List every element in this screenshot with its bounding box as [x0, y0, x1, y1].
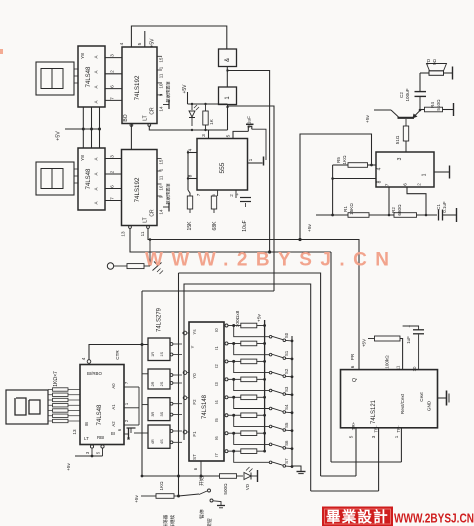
svg-text:14: 14 — [159, 209, 164, 214]
wire G1 output right — [226, 69, 269, 252]
bus wire y291 — [142, 290, 274, 292]
input row resistor/switch S4 — [225, 395, 293, 414]
svg-text:VD: VD — [245, 484, 250, 490]
svg-text:74LS279: 74LS279 — [157, 307, 163, 332]
svg-text:A1: A1 — [111, 404, 116, 410]
latch U8-4 — [148, 425, 182, 448]
capacitor 10uF — [236, 192, 251, 232]
decoder U1 74LS48 — [78, 46, 105, 107]
svg-text:1: 1 — [394, 435, 399, 438]
+5V label Q1 — [365, 114, 371, 122]
resistor 100k — [368, 336, 400, 369]
svg-text:4S: 4S — [160, 439, 164, 444]
U4 right pin numbers — [159, 159, 164, 214]
svg-text:13: 13 — [72, 429, 77, 435]
svg-text:A: A — [94, 70, 99, 73]
wire U6 pin6 — [407, 187, 427, 216]
svg-text:9Ω: 9Ω — [432, 58, 437, 65]
left bus vertical — [141, 291, 144, 477]
input row resistor/switch S7 — [225, 449, 293, 468]
svg-text:4R: 4R — [151, 439, 155, 444]
switch common rail — [291, 336, 293, 466]
wire Q to 74LS121 — [148, 240, 359, 371]
svg-text:4: 4 — [81, 357, 86, 360]
svg-text:100uF: 100uF — [405, 88, 410, 101]
capacitor C1 0.1uF — [436, 201, 447, 220]
wire G2 tap right — [228, 106, 275, 291]
pin 3 label — [201, 134, 207, 137]
wire Q to amp input — [298, 134, 373, 241]
svg-text:11: 11 — [159, 175, 164, 180]
svg-text:Ys: Ys — [192, 329, 197, 335]
pin 4 label — [188, 148, 194, 151]
ground pin6 U7 — [117, 428, 129, 439]
svg-text:7: 7 — [110, 197, 116, 200]
U7 bottom pins — [75, 445, 104, 458]
svg-text:TR+: TR+ — [351, 421, 356, 430]
junction dots +5V bus — [82, 128, 101, 131]
bus wire y273 — [179, 273, 321, 476]
svg-text:A2: A2 — [111, 421, 116, 427]
input row resistor/switch S6 — [225, 431, 293, 450]
svg-text:S7: S7 — [284, 458, 289, 464]
svg-text:数据预置端: 数据预置端 — [165, 184, 172, 205]
resistor R2 680 — [391, 204, 417, 217]
pickup terminal — [107, 263, 127, 269]
svg-text:CR: CR — [150, 209, 156, 217]
wire 555 pin3 up — [208, 130, 210, 139]
label zanting — [199, 509, 206, 519]
capacitor 1uF — [403, 324, 424, 344]
svg-text:+5v: +5v — [66, 463, 71, 471]
svg-text:11: 11 — [140, 231, 145, 236]
counter U3 74LS192 — [122, 47, 157, 124]
svg-text:CR: CR — [150, 107, 156, 115]
ground latch4 input — [127, 428, 149, 441]
junction clock-gate — [268, 250, 271, 253]
+5v label start — [134, 495, 139, 503]
wire C1 ground — [443, 208, 457, 222]
svg-text:1S: 1S — [160, 351, 164, 356]
banner url text — [394, 511, 474, 526]
svg-text:11: 11 — [159, 73, 164, 78]
svg-text:100Ωx8: 100Ωx8 — [235, 310, 241, 327]
pin 6 label — [211, 194, 216, 197]
svg-text:1: 1 — [422, 173, 428, 176]
svg-text:74LS192: 74LS192 — [134, 75, 141, 100]
svg-text:C1: C1 — [436, 204, 441, 210]
wire +5V rail amp — [316, 214, 348, 216]
svg-text:Q: Q — [352, 378, 358, 382]
wire cap to pin10 — [412, 335, 419, 372]
switch feed vertical — [177, 273, 180, 498]
svg-text:Y: Y — [190, 345, 195, 348]
amplifier U6 — [376, 152, 434, 187]
wires DS2 to U2 — [74, 169, 78, 183]
svg-text:2: 2 — [417, 183, 422, 186]
svg-text:+5v: +5v — [365, 114, 371, 122]
svg-text:74LS48: 74LS48 — [97, 404, 103, 425]
svg-text:H: H — [127, 436, 130, 441]
svg-text:2R: 2R — [151, 381, 155, 386]
svg-text:7: 7 — [385, 183, 390, 186]
svg-text:5: 5 — [137, 42, 143, 45]
svg-text:+5V: +5V — [362, 338, 367, 347]
7-segment display DS2 — [36, 162, 74, 195]
pin 8 label — [188, 174, 194, 177]
watermark left speck — [0, 49, 3, 54]
svg-text:10: 10 — [159, 83, 164, 88]
svg-text:A: A — [94, 172, 99, 175]
svg-text:揿钮: 揿钮 — [206, 518, 213, 526]
wire 555 left rail — [187, 151, 190, 197]
U4 right pin stubs — [157, 159, 162, 197]
svg-text:工作继续: 工作继续 — [169, 514, 176, 526]
decoder U7 74LS48 — [80, 365, 124, 445]
svg-text:100kΩ: 100kΩ — [385, 355, 390, 369]
wire U3 pin4 to gate — [131, 26, 226, 49]
svg-text:YD: YD — [426, 58, 431, 65]
svg-text:500Ω: 500Ω — [223, 483, 228, 495]
svg-text:CTR: CTR — [115, 350, 120, 360]
pin 7 label — [196, 193, 201, 196]
svg-text:+5v: +5v — [134, 495, 139, 503]
pin 2 label — [229, 194, 234, 197]
svg-text:S5: S5 — [284, 422, 289, 428]
label kaishi — [198, 476, 205, 486]
wires DS1 to U1 — [74, 69, 78, 83]
svg-text:2: 2 — [110, 70, 116, 73]
+5V label amp — [307, 223, 313, 231]
wire 555 pin2 — [235, 190, 237, 198]
wires U1 bottom to +5V bus — [83, 107, 99, 148]
wire U3 BO to U4 — [130, 124, 133, 150]
svg-text:6: 6 — [110, 185, 116, 188]
wire U6 pin7 — [388, 187, 391, 216]
banner red block — [322, 507, 393, 526]
svg-text:1KΩ: 1KΩ — [159, 481, 164, 491]
encoder input links — [182, 331, 189, 434]
svg-text:555: 555 — [219, 162, 226, 173]
svg-text:A: A — [94, 100, 99, 103]
svg-text:WWW.2BYSJ.CN: WWW.2BYSJ.CN — [145, 250, 389, 271]
resistor 51R — [395, 126, 409, 152]
svg-text:BO: BO — [123, 114, 129, 121]
svg-text:11: 11 — [396, 365, 401, 370]
label anniu — [206, 518, 213, 526]
svg-text:6: 6 — [110, 85, 116, 88]
svg-text:15: 15 — [159, 159, 164, 164]
pin 5 label — [226, 134, 232, 137]
pin 13 label U4 — [121, 231, 126, 237]
svg-text:3S: 3S — [160, 411, 164, 416]
svg-text:Y8: Y8 — [80, 155, 86, 161]
+5V label bus — [56, 129, 100, 141]
latch input wires — [142, 345, 148, 405]
svg-text:3: 3 — [110, 54, 116, 57]
svg-text:74LS121: 74LS121 — [371, 399, 377, 424]
svg-text:+5V: +5V — [150, 38, 156, 48]
svg-text:TR-: TR- — [374, 425, 379, 433]
svg-text:3: 3 — [110, 155, 116, 158]
+5V feed LED — [182, 84, 228, 104]
resistor 1K start — [141, 481, 179, 498]
svg-text:1uF: 1uF — [406, 336, 411, 344]
pin 5 label U3 — [137, 42, 143, 45]
svg-text:畢業設計: 畢業設計 — [326, 508, 389, 526]
svg-text:暂停: 暂停 — [199, 509, 206, 519]
svg-text:5: 5 — [226, 134, 232, 137]
svg-text:S6: S6 — [284, 440, 289, 446]
svg-text:BI: BI — [111, 431, 115, 436]
wire 100k to pin11 — [396, 339, 403, 371]
svg-text:15K: 15K — [187, 221, 193, 231]
svg-text:A: A — [94, 85, 99, 88]
wire R1-R2 — [369, 214, 394, 216]
svg-text:68K: 68K — [212, 221, 218, 231]
U4 preset CJK label — [165, 184, 172, 205]
capacitor 0.1uF at 555 — [246, 116, 266, 160]
speaker LS 9R — [426, 58, 447, 75]
U10 pin6 labels — [350, 353, 355, 368]
wire R5 feedback — [331, 165, 334, 216]
svg-text:14: 14 — [159, 106, 164, 111]
counter U4 74LS192 — [122, 150, 158, 226]
svg-text:R1: R1 — [343, 206, 348, 212]
svg-text:R4: R4 — [430, 102, 435, 108]
resistor array 1K x7 — [48, 388, 80, 423]
svg-text:S4: S4 — [284, 404, 289, 410]
latch U8-2 — [148, 369, 182, 389]
wire R2-C1 — [417, 214, 438, 216]
latch U8-1 — [148, 338, 182, 361]
svg-text:主振荡器: 主振荡器 — [162, 514, 169, 526]
svg-text:C2: C2 — [399, 92, 404, 98]
svg-text:3: 3 — [397, 157, 403, 160]
svg-text:S0: S0 — [284, 332, 289, 338]
pin 11 label U4 — [140, 231, 145, 236]
transistor Q1 — [374, 110, 420, 126]
+5V label U7 — [66, 463, 71, 471]
svg-text:&: & — [225, 58, 231, 62]
resistor 68K — [211, 196, 218, 230]
svg-text:BI/RBO: BI/RBO — [87, 371, 102, 376]
svg-text:Cext: Cext — [419, 392, 424, 402]
svg-text:2: 2 — [229, 194, 234, 197]
svg-text:TR-: TR- — [396, 425, 401, 433]
wire C2 to speaker — [420, 73, 429, 91]
bus wire y284 — [184, 284, 311, 491]
U3 right pin numbers — [159, 57, 164, 111]
svg-text:15KΩ: 15KΩ — [349, 203, 354, 215]
ground pin14 U3 — [163, 100, 169, 109]
watermark center — [145, 250, 389, 271]
svg-text:S3: S3 — [284, 386, 289, 392]
start-pause switch — [179, 489, 226, 508]
svg-text:数据预置端: 数据预置端 — [165, 82, 172, 103]
wire U3 pin5 +5V — [145, 31, 156, 48]
label CTR — [115, 350, 120, 360]
input row resistor/switch S3 — [225, 377, 293, 396]
svg-text:Y8: Y8 — [80, 53, 86, 59]
svg-text:510Ω: 510Ω — [436, 99, 441, 111]
U3 right pin stubs — [158, 56, 163, 95]
wire 555 pin1 ground — [248, 157, 264, 166]
svg-text:3R: 3R — [151, 411, 155, 416]
svg-text:6: 6 — [403, 183, 408, 186]
svg-text:3: 3 — [201, 134, 207, 137]
+5V rail vertical — [264, 320, 266, 452]
svg-text:F1: F1 — [192, 431, 197, 437]
resistor 500R — [220, 474, 237, 495]
input row resistor/switch S5 — [225, 413, 293, 432]
pin 4 wire U7 — [81, 345, 148, 364]
svg-text:15: 15 — [159, 57, 164, 62]
svg-text:10uF: 10uF — [242, 220, 248, 231]
svg-text:680Ω: 680Ω — [397, 204, 402, 216]
wire 555 pin4 — [188, 152, 197, 154]
pin 1 label — [248, 158, 254, 161]
resistor R 1K — [203, 103, 214, 131]
svg-text:13: 13 — [121, 231, 126, 237]
wire speaker ground — [444, 67, 453, 80]
svg-text:1KΩ×7: 1KΩ×7 — [53, 371, 59, 387]
svg-text:1KΩ: 1KΩ — [342, 155, 347, 165]
7-segment display DS1 — [36, 62, 74, 95]
svg-text:74LS192: 74LS192 — [134, 177, 141, 202]
svg-text:2S: 2S — [160, 381, 164, 386]
U3 preset CJK label — [165, 82, 172, 103]
label main osc CJK — [162, 514, 176, 526]
svg-text:A0: A0 — [111, 383, 116, 389]
svg-text:1: 1 — [248, 158, 254, 161]
wire G2 down to clock — [226, 105, 228, 131]
svg-text:RBI: RBI — [97, 435, 104, 440]
svg-text:4: 4 — [119, 42, 125, 45]
LED VD1 — [189, 103, 199, 131]
label 100ohm x8 — [235, 310, 241, 327]
svg-text:74LS48: 74LS48 — [86, 66, 92, 87]
svg-text:+: + — [236, 192, 239, 197]
U9 ST pin — [193, 461, 203, 478]
svg-text:Rext/Cext: Rext/Cext — [400, 393, 405, 414]
svg-text:10: 10 — [159, 185, 164, 190]
svg-text:LT: LT — [84, 436, 89, 441]
svg-text:ST: ST — [192, 454, 197, 460]
svg-text:51Ω: 51Ω — [395, 135, 400, 144]
svg-text:LT: LT — [143, 217, 149, 222]
svg-text:A: A — [94, 55, 99, 58]
svg-text:3: 3 — [371, 435, 376, 438]
AND gate G1 — [219, 49, 237, 67]
svg-text:A: A — [94, 201, 99, 204]
ground rail — [292, 466, 306, 474]
svg-text:8: 8 — [377, 180, 383, 183]
wire U2-U4 bit lines — [105, 159, 122, 201]
svg-text:0.1uF: 0.1uF — [442, 201, 447, 213]
input row resistor/switch S2 — [225, 359, 293, 378]
series resistor small — [127, 264, 150, 269]
bus vertical x331 — [330, 252, 332, 462]
ground LED — [257, 470, 259, 482]
+5V label 100k — [362, 338, 367, 347]
svg-text:74LS48: 74LS48 — [86, 168, 92, 189]
svg-text:WWW.2BYSJ.CN: WWW.2BYSJ.CN — [394, 511, 474, 526]
wire U4 pin11 to Q net — [147, 226, 300, 240]
svg-text:LT: LT — [143, 115, 149, 120]
pin labels 3 2 6 7 lower — [110, 155, 116, 200]
wire ST row — [142, 475, 220, 477]
wire U3 clock line — [148, 124, 228, 130]
latch U8-3 — [148, 398, 182, 421]
svg-text:R2: R2 — [391, 207, 396, 213]
wire 555 pin6 — [217, 190, 219, 196]
input row resistor/switch S0 — [225, 323, 293, 342]
label U8 74LS279 — [157, 307, 163, 332]
wire GND pin U10 — [438, 391, 450, 406]
svg-text:7: 7 — [110, 97, 116, 100]
wire U6 pin1 out — [434, 166, 450, 179]
svg-text:1R: 1R — [151, 352, 155, 357]
buffer gate G2 — [219, 87, 237, 105]
svg-text:+5v: +5v — [257, 313, 263, 321]
svg-text:74LS148: 74LS148 — [202, 394, 208, 419]
svg-text:4: 4 — [377, 167, 383, 170]
svg-text:A: A — [94, 157, 99, 160]
pin 4 label U3 — [119, 42, 125, 45]
7-segment display DS3 — [6, 390, 48, 424]
resistor R1 15K — [343, 203, 369, 218]
wire tap to clock bus — [149, 238, 152, 266]
svg-text:A: A — [94, 187, 99, 190]
ground pin14 U4 — [163, 203, 169, 212]
wire U4 pin13 bus — [129, 226, 331, 252]
svg-text:S2: S2 — [284, 368, 289, 374]
+5v label rail — [257, 313, 263, 321]
svg-text:5: 5 — [349, 435, 354, 438]
resistor R5 1K — [333, 155, 376, 167]
timer U5 555 — [197, 139, 248, 191]
svg-text:PR: PR — [350, 353, 355, 360]
resistor R4 510 — [420, 99, 454, 116]
U6 pin labels — [377, 157, 428, 186]
U10 pin1 wire — [331, 428, 401, 462]
U10 pin5 wire — [321, 428, 356, 476]
svg-text:1K: 1K — [209, 118, 214, 125]
svg-text:2: 2 — [110, 170, 116, 173]
U7 output stubs — [111, 381, 139, 426]
pin 13 label U7 — [72, 429, 77, 435]
svg-text:IB: IB — [84, 422, 89, 426]
diode small — [153, 262, 164, 275]
svg-text:10: 10 — [412, 366, 417, 371]
decoder U2 74LS48 — [78, 148, 105, 210]
capacitor C2 100uF — [399, 88, 426, 111]
svg-text:S1: S1 — [284, 350, 289, 356]
wire U1-U3 bit lines — [105, 58, 122, 101]
svg-text:6: 6 — [350, 365, 355, 368]
wire 555 pin8 — [188, 178, 197, 180]
pin labels 3 2 6 7 — [110, 54, 116, 100]
U10 pin3 wire — [311, 428, 379, 491]
encoder U9 74LS148 — [189, 322, 224, 461]
svg-text:GND: GND — [427, 400, 432, 411]
label 1KOhm x7 — [53, 371, 59, 387]
svg-text:+5V: +5V — [56, 131, 62, 141]
input row resistor/switch S1 — [225, 341, 293, 360]
svg-text:+5v: +5v — [307, 223, 313, 231]
LED VD2 — [237, 467, 258, 490]
